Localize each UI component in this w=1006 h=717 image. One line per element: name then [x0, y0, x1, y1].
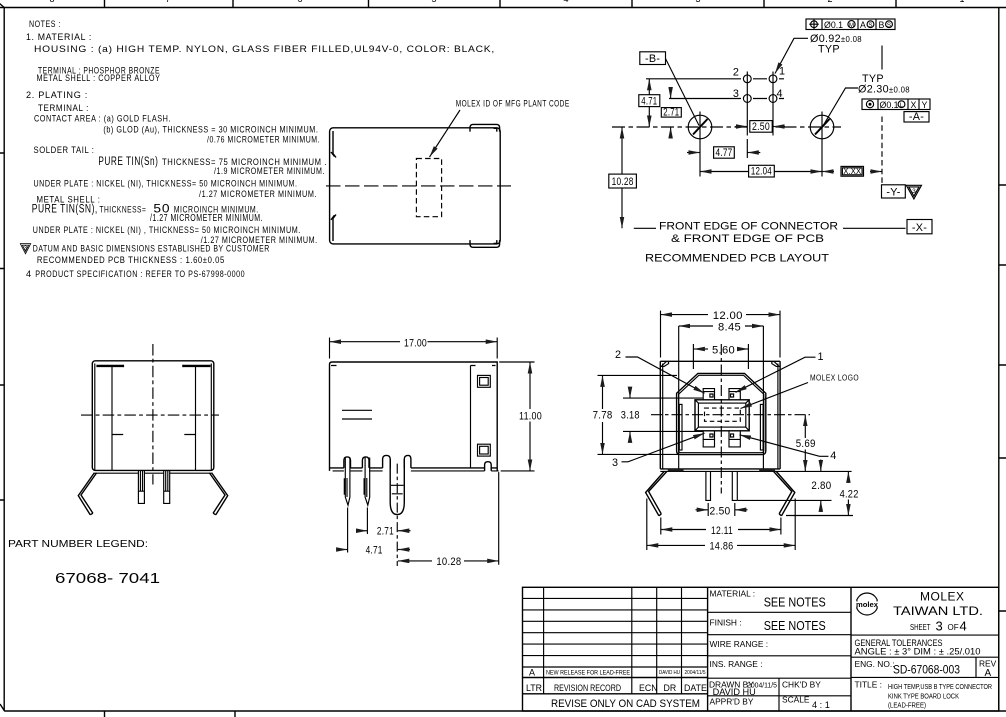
- svg-text:6: 6: [297, 0, 302, 4]
- svg-text:INS. RANGE :: INS. RANGE :: [710, 659, 763, 669]
- rear view: top shelf edges: [96, 365, 210, 367]
- side view: top-left corner step: [331, 365, 496, 367]
- svg-text:/1.9 MICROMETER MINIMUM.: /1.9 MICROMETER MINIMUM.: [214, 166, 325, 176]
- svg-text:X: X: [911, 100, 917, 110]
- dim 17.00: [330, 338, 498, 359]
- rear view: left solder pin: [138, 471, 144, 503]
- svg-text:DAVID HU: DAVID HU: [659, 670, 680, 676]
- top view: left shell seam bottom: [331, 215, 336, 242]
- dim 11.00: [499, 362, 534, 471]
- svg-text:-B-: -B-: [645, 53, 660, 65]
- dim 8.45: [679, 325, 713, 327]
- svg-text:APPR'D BY: APPR'D BY: [710, 697, 754, 707]
- svg-text:L: L: [900, 102, 904, 109]
- molex logo: [855, 593, 879, 615]
- svg-text:CHK'D BY: CHK'D BY: [782, 680, 821, 690]
- svg-text:TITLE :: TITLE :: [855, 680, 882, 690]
- side view: solder pin 1: [344, 458, 350, 506]
- svg-text:SHEET: SHEET: [910, 623, 931, 632]
- svg-text:PRODUCT SPECIFICATION : REFER: PRODUCT SPECIFICATION : REFER TO PS-6799…: [35, 269, 245, 279]
- svg-text:4: 4: [777, 88, 783, 100]
- side view: board lock window top: [478, 375, 491, 387]
- rear view: right kink leg: [209, 473, 227, 515]
- svg-text:KINK TYPE BOARD LOCK: KINK TYPE BOARD LOCK: [888, 692, 959, 701]
- side view: peg centerline: [396, 464, 398, 566]
- svg-text:4: 4: [830, 450, 836, 462]
- svg-text:4.77: 4.77: [716, 147, 733, 159]
- svg-text:2: 2: [615, 349, 621, 361]
- svg-text:TAIWAN LTD.: TAIWAN LTD.: [893, 604, 983, 618]
- svg-text:DATE: DATE: [684, 683, 707, 693]
- svg-text:7.78: 7.78: [593, 409, 613, 421]
- dim 4.71: [648, 79, 650, 127]
- front view: solder pins: [706, 471, 737, 500]
- dim 12.00: [661, 311, 781, 358]
- svg-text:DR: DR: [664, 683, 677, 693]
- svg-text:MATERIAL :: MATERIAL :: [710, 589, 756, 599]
- flag 3 by -Y-: [906, 185, 921, 199]
- svg-text:A: A: [529, 668, 535, 678]
- dim extension pins: [348, 472, 499, 565]
- svg-text:2.50: 2.50: [752, 121, 770, 133]
- svg-text:11.00: 11.00: [519, 410, 542, 422]
- svg-text:molex: molex: [856, 602, 878, 609]
- pcb layout: hole 1: [769, 75, 777, 83]
- svg-text:MOLEX: MOLEX: [920, 590, 964, 604]
- datum -X-: [907, 220, 932, 234]
- front view: body bottom edge: [660, 468, 780, 470]
- big holes centerline: [612, 126, 841, 128]
- top view: bottom-right mounting tab: [470, 240, 500, 247]
- side view: pin slot arch 1: [344, 457, 351, 468]
- rear view: inner cavity walls: [112, 366, 196, 471]
- side view: body outline: [330, 362, 498, 471]
- revision table grid: [523, 598, 708, 667]
- svg-text:2: 2: [733, 67, 739, 79]
- svg-text:UNDER PLATE : NICKEL (NI), THI: UNDER PLATE : NICKEL (NI), THICKNESS= 50…: [34, 179, 298, 189]
- front view: body sides: [660, 361, 780, 469]
- svg-text:S: S: [887, 22, 891, 29]
- svg-text:10.28: 10.28: [612, 176, 634, 188]
- side view: peg surface ticks: [391, 485, 404, 494]
- svg-text:FRONT EDGE OF CONNECTOR: FRONT EDGE OF CONNECTOR: [659, 220, 838, 232]
- front view: molex logo zone dashed: [705, 408, 741, 421]
- dim 3.18: [623, 398, 703, 431]
- extension line row2: [646, 79, 741, 99]
- dim 4.71: [337, 549, 348, 551]
- svg-text:3: 3: [612, 457, 618, 469]
- svg-text:4: 4: [26, 269, 32, 279]
- svg-text:SCALE: SCALE: [782, 695, 810, 705]
- svg-text:1. MATERIAL :: 1. MATERIAL :: [26, 32, 92, 42]
- rear view: horizontal centerline: [81, 414, 219, 416]
- svg-text:/1.27 MICROMETER MINIMUM.: /1.27 MICROMETER MINIMUM.: [150, 213, 263, 224]
- svg-text:8: 8: [49, 0, 54, 4]
- pcb layout: hole 2: [743, 75, 751, 83]
- top view: hidden molex ID zone (dashed): [416, 159, 441, 217]
- svg-text:5.60: 5.60: [712, 344, 735, 356]
- front view: contact 2 (top-left): [703, 389, 714, 400]
- dim 2.50: [735, 126, 747, 128]
- feature control frame top: [806, 19, 895, 30]
- svg-text:5: 5: [431, 0, 436, 4]
- datum -A-: [904, 112, 929, 122]
- svg-text:PURE TIN(Sn): PURE TIN(Sn): [98, 156, 158, 168]
- side view: slot arch 3: [383, 455, 391, 468]
- svg-text:8.45: 8.45: [718, 321, 741, 333]
- svg-text:4: 4: [563, 0, 568, 4]
- svg-text:NOTES :: NOTES :: [29, 19, 61, 29]
- svg-text:(LEAD-FREE): (LEAD-FREE): [888, 701, 926, 710]
- svg-text:RECOMMENDED PCB THICKNESS : 1.: RECOMMENDED PCB THICKNESS : 1.60±0.05: [37, 255, 225, 265]
- svg-text:THICKNESS=: THICKNESS=: [99, 205, 146, 215]
- svg-text:S: S: [868, 22, 872, 29]
- svg-text:HIGH TEMP,USB B TYPE CONNECTOR: HIGH TEMP,USB B TYPE CONNECTOR: [888, 682, 992, 691]
- dim 5.60: [693, 344, 748, 369]
- svg-text:1: 1: [779, 66, 785, 78]
- hole row dashes: [753, 79, 784, 99]
- svg-text:Ø0.1: Ø0.1: [824, 20, 843, 30]
- svg-text:CONTACT AREA : (a) GOLD FLASH.: CONTACT AREA : (a) GOLD FLASH.: [34, 114, 171, 124]
- svg-text:-Y-: -Y-: [886, 186, 900, 198]
- svg-text:5.69: 5.69: [796, 438, 816, 450]
- svg-text:3.18: 3.18: [621, 409, 640, 421]
- svg-text:/0.76 MICROMETER MINIMUM.: /0.76 MICROMETER MINIMUM.: [207, 135, 320, 145]
- svg-text:RECOMMENDED PCB LAYOUT: RECOMMENDED PCB LAYOUT: [645, 253, 829, 265]
- svg-text:SD-67068-003: SD-67068-003: [893, 665, 960, 677]
- svg-text:ENG. NO.:: ENG. NO.:: [855, 659, 895, 669]
- svg-text:4 : 1: 4 : 1: [812, 700, 830, 710]
- rear view: inner side walls: [95, 364, 212, 471]
- side view: vent lines: [342, 410, 372, 419]
- rear view: outer shell: [92, 361, 214, 471]
- front view: horizontal centerline: [651, 414, 810, 416]
- svg-text:4.71: 4.71: [641, 95, 657, 107]
- front view: right leg: [774, 471, 795, 515]
- svg-text:SOLDER TAIL :: SOLDER TAIL :: [34, 145, 95, 155]
- side view: pin slot arch 2: [362, 457, 369, 468]
- svg-text:17.00: 17.00: [404, 337, 427, 349]
- svg-text:OF: OF: [948, 623, 959, 632]
- hole column centerlines: [747, 72, 773, 136]
- svg-text:Y: Y: [922, 100, 928, 110]
- svg-text:2.71: 2.71: [663, 107, 679, 119]
- dim 10.28 vertical: [621, 127, 623, 228]
- svg-text:WIRE RANGE :: WIRE RANGE :: [710, 639, 769, 649]
- svg-text:2: 2: [827, 0, 832, 4]
- svg-text:14.86: 14.86: [710, 541, 734, 553]
- title block frame: [523, 587, 999, 711]
- front view: ground finger slots: [679, 404, 682, 450]
- rear view: vertical centerline: [152, 344, 154, 485]
- svg-text:PART NUMBER LEGEND:: PART NUMBER LEGEND:: [8, 539, 148, 550]
- svg-text:10.28: 10.28: [436, 556, 461, 568]
- front view: leg tabs: [668, 469, 684, 472]
- svg-text:METAL SHELL : COPPER ALLOY: METAL SHELL : COPPER ALLOY: [37, 73, 161, 83]
- datum -B-: [640, 52, 666, 65]
- svg-text:B: B: [879, 20, 885, 30]
- svg-text:2.71: 2.71: [377, 526, 394, 538]
- front view: body top edge: [660, 360, 780, 362]
- svg-text:1: 1: [959, 0, 964, 4]
- svg-text:4.71: 4.71: [366, 545, 383, 557]
- svg-text:Ø0.1: Ø0.1: [880, 100, 899, 110]
- dim 14.86: [647, 499, 795, 551]
- svg-text:4: 4: [960, 619, 967, 634]
- front view: contact 1 (top-right): [729, 389, 740, 400]
- svg-text:HOUSING : (a) HIGH TEMP. NYLON: HOUSING : (a) HIGH TEMP. NYLON, GLASS FI…: [34, 44, 495, 54]
- svg-text:(b) GLOD (Au), THICKNESS = 30: (b) GLOD (Au), THICKNESS = 30 MICROINCH …: [103, 125, 318, 135]
- dim 5.69: [804, 415, 806, 472]
- extension lines right: [738, 471, 853, 515]
- big hole left: [688, 115, 712, 139]
- svg-text:X.XX: X.XX: [843, 166, 861, 176]
- svg-text:2.50: 2.50: [710, 506, 731, 518]
- rear view: cavity ticks: [112, 434, 196, 436]
- svg-text:3: 3: [695, 0, 700, 4]
- side view: slot arch 4: [404, 455, 411, 468]
- top view: top-right mounting tab: [470, 124, 500, 131]
- side view: body/shell divider: [470, 366, 472, 468]
- svg-text:REVISE ONLY ON CAD SYSTEM: REVISE ONLY ON CAD SYSTEM: [551, 698, 700, 710]
- svg-text:2. PLATING :: 2. PLATING :: [26, 90, 88, 100]
- feature control frame right: [862, 99, 930, 110]
- dim 2.71: [357, 530, 368, 532]
- svg-text:1: 1: [818, 351, 824, 363]
- front view: center tongue inner: [698, 403, 745, 427]
- dim 2.71: [670, 87, 672, 99]
- top view: horizontal centerline: [326, 185, 511, 187]
- middle column rows: [708, 612, 851, 711]
- svg-text:& FRONT EDGE OF PCB: & FRONT EDGE OF PCB: [671, 233, 824, 245]
- front view: face inset lines: [679, 326, 764, 469]
- svg-text:Ø2.30±0.08: Ø2.30±0.08: [858, 84, 910, 96]
- front view: usb shell inner: [679, 375, 764, 452]
- svg-text:3: 3: [24, 245, 28, 252]
- svg-text:LTR: LTR: [526, 683, 542, 693]
- svg-text:3: 3: [912, 188, 916, 195]
- dim 4.77: [687, 152, 700, 154]
- top view: left shell seam top: [331, 131, 336, 158]
- dim 12.11: [661, 518, 781, 535]
- svg-text:/1.27 MICROMETER MINIMUM.: /1.27 MICROMETER MINIMUM.: [199, 189, 317, 199]
- dim 7.78 extension lines: [598, 375, 680, 454]
- svg-text:M: M: [849, 22, 854, 29]
- svg-text:REV: REV: [979, 659, 997, 669]
- front view: left leg: [646, 471, 667, 515]
- dim 2.50 front: [708, 503, 735, 516]
- svg-text:67068- 7041: 67068- 7041: [55, 571, 160, 587]
- svg-text:DATUM AND BASIC DIMENSIONS EST: DATUM AND BASIC DIMENSIONS ESTABLISHED B…: [33, 243, 270, 253]
- svg-text:-X-: -X-: [912, 222, 927, 234]
- top view: shell body outline: [330, 128, 501, 244]
- svg-text:FINISH :: FINISH :: [710, 618, 742, 628]
- svg-text:ECN: ECN: [639, 683, 658, 693]
- rear view: right solder pin: [164, 471, 170, 503]
- svg-text:REVISION RECORD: REVISION RECORD: [554, 683, 621, 693]
- datum -Y- dashed line: [881, 46, 883, 70]
- svg-text:3: 3: [936, 619, 943, 634]
- svg-text:SEE NOTES: SEE NOTES: [764, 619, 826, 633]
- dim X.XX: [822, 171, 834, 173]
- side view: solder pin 2: [364, 458, 370, 506]
- svg-text:-A-: -A-: [909, 111, 924, 123]
- svg-text:A: A: [860, 20, 866, 30]
- side view: board lock window bottom: [478, 444, 491, 456]
- side view: kink board lock peg: [390, 459, 404, 515]
- svg-text:7: 7: [165, 0, 170, 4]
- rear view: left kink leg: [78, 473, 96, 515]
- svg-text:SEE NOTES: SEE NOTES: [764, 596, 826, 610]
- side view: bottom edge with slots: [330, 467, 498, 469]
- svg-text:2004/11/5: 2004/11/5: [685, 670, 706, 676]
- svg-text:UNDER PLATE : NICKEL (NI) , TH: UNDER PLATE : NICKEL (NI) , THICKNESS= 5…: [33, 225, 301, 235]
- svg-text:DAVID HU: DAVID HU: [713, 687, 756, 697]
- svg-text:12.04: 12.04: [751, 166, 772, 178]
- svg-text:NEW RELEASE FOR LEAD-FREE: NEW RELEASE FOR LEAD-FREE: [546, 670, 630, 677]
- front view: center tongue outer: [695, 400, 749, 431]
- front view: usb shell outer: [677, 373, 766, 454]
- rear view: bottom shell line: [94, 472, 213, 474]
- front view: vertical centerline: [720, 344, 722, 494]
- dim 10.28: [398, 560, 432, 562]
- svg-text:TERMINAL :: TERMINAL :: [38, 103, 89, 113]
- svg-text:12.11: 12.11: [711, 525, 733, 537]
- svg-text:MOLEX ID OF MFG PLANT CODE: MOLEX ID OF MFG PLANT CODE: [456, 99, 570, 109]
- pcb layout: hole 3: [743, 95, 751, 103]
- svg-text:2.80: 2.80: [811, 480, 831, 492]
- svg-text:ANGLE : ± 3° DIM : ± .25/.01: ANGLE : ± 3° DIM : ± .25/.010: [855, 647, 981, 657]
- front view: contact 4 (bottom-right): [729, 431, 740, 447]
- svg-text:TYP: TYP: [818, 44, 840, 56]
- svg-text:12.00: 12.00: [713, 310, 743, 322]
- dim 12.04: [700, 147, 822, 177]
- note flag 3: [20, 244, 30, 254]
- front view: contact 3 (bottom-left): [703, 431, 714, 447]
- big hole right: [810, 115, 834, 139]
- dim 2.80: [820, 460, 822, 472]
- front edge line and text: [634, 227, 906, 229]
- pcb layout: hole 4: [769, 95, 777, 103]
- svg-text:MOLEX LOGO: MOLEX LOGO: [810, 374, 859, 383]
- dim 4.22: [847, 471, 849, 515]
- svg-text:4.22: 4.22: [840, 489, 859, 501]
- side view: shell bottom notch: [485, 462, 492, 471]
- svg-text:PURE TIN(SN),: PURE TIN(SN),: [32, 204, 98, 216]
